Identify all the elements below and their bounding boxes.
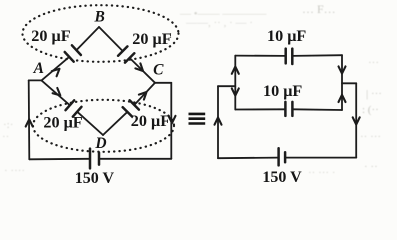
svg-text:20 μF: 20 μF [132,30,171,48]
svg-text:| ···: | ··· [366,88,382,100]
svg-text:——, ·· , · — ·: ——, ·· , · — · [185,17,253,29]
wire arm A to B (upper half) [77,27,99,49]
svg-text:· ··: · ·· [364,161,378,173]
wire bottom rail left of battery (right circuit) [218,157,278,160]
wire bottom rail left of battery [29,158,89,161]
svg-text:···: ··· [368,57,379,69]
wire arm A to B (lower half) [42,58,69,81]
svg-text:A: A [33,60,44,77]
current arrow up on inner right vertical (bottom) [339,95,346,102]
svg-text:10 μF: 10 μF [263,82,302,100]
svg-text:: (··: : (·· [362,104,379,116]
wire middle branch left of capacitor [235,108,284,110]
wire outer left vertical [217,86,219,158]
current arrow down on outer right vertical [353,117,360,124]
svg-text:·· ··· ·: ·· ··· · [308,167,335,179]
capacitor 10 uF (top branch) [286,49,293,64]
svg-text:150 V: 150 V [262,169,302,186]
capacitor 10 uF (middle branch) [285,102,292,116]
current arrow on arm B-C [135,63,143,71]
svg-text:C: C [153,61,164,78]
battery 150 V (right circuit) [279,148,286,165]
faint page bleed-through artifacts [2,2,382,179]
wire node A to left rail corner [29,79,42,81]
wire bottom rail right of battery (right circuit) [286,157,356,159]
wire arm D to C (upper half) [135,83,155,104]
current arrow up on inner left vertical (top) [232,67,239,74]
svg-text:· ····: · ···· [4,165,25,177]
battery 150 V (left circuit) [90,149,99,169]
wire bottom rail right of battery [100,158,172,160]
capacitor 20 uF on arm D-C [123,100,139,116]
wire right junction stub [342,82,356,84]
equivalence symbol [189,114,206,124]
svg-text:D: D [94,135,106,152]
current arrow on arm A-B [52,69,60,77]
svg-text:10 μF: 10 μF [267,27,306,45]
capacitor 20 uF on arm B-C [118,46,134,62]
svg-text:B: B [94,9,105,26]
dotted loop around bottom capacitor pair [33,100,174,152]
svg-text:150 V: 150 V [75,170,115,187]
wire right vertical of outer loop [170,83,172,159]
wire arm B to C (upper half) [99,27,122,50]
capacitor 20 uF on arm A-B [65,45,81,61]
current arrow on arm D-C [139,92,147,100]
wire inner left vertical [234,56,236,110]
dotted loop around top capacitor pair [23,5,179,62]
wire arm D to C (lower half) [103,113,126,135]
svg-text:20 μF: 20 μF [31,27,70,45]
wire arm A to D (lower half) [78,113,103,135]
current arrow up on left vertical [26,119,33,126]
current arrow down on inner right vertical (top) [339,66,346,73]
svg-text:··: ·· [2,131,9,143]
current arrow down on inner left vertical (bottom) [232,88,239,95]
wire left vertical of outer loop [28,80,31,159]
current arrow up on outer left vertical [215,118,222,125]
wire top branch right of capacitor [293,54,342,57]
wire outer right vertical [355,83,357,157]
wire left junction stub [218,85,235,87]
current arrow on arm A-D [53,88,61,95]
wire inner right vertical [341,55,343,110]
wire arm A to D (upper half) [42,80,69,104]
svg-text:·· ···: ·· ··· [360,131,381,143]
wire arm B to C (lower half) [131,59,155,83]
wire middle branch right of capacitor [293,108,342,111]
svg-text:… F…: … F… [302,2,336,16]
wire top branch left of capacitor [235,55,284,57]
capacitor 20 uF on arm A-D [66,100,82,116]
svg-text:·:·: ·:· [3,119,13,131]
svg-text:20 μF: 20 μF [43,114,82,132]
wire right rail corner to node C [155,82,171,84]
svg-text:20 μF: 20 μF [131,112,170,130]
current arrow down on right vertical [169,116,176,123]
